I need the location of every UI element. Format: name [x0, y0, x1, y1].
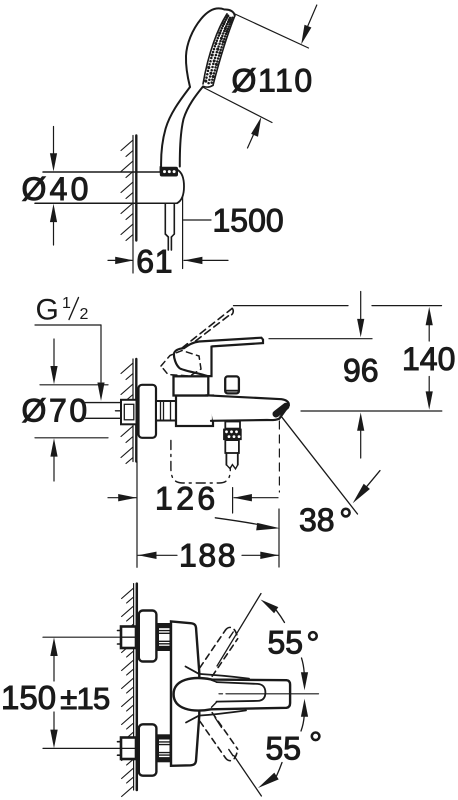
lower 55° arc from centerline	[301, 699, 308, 717]
dimension Ø110 lower arrow	[248, 129, 257, 148]
handle left edge	[161, 87, 190, 167]
handle end nut (black band with knurl dots)	[160, 167, 178, 177]
lower 55° tilted dim line	[234, 756, 262, 797]
svg-text:Ø70: Ø70	[22, 393, 90, 429]
svg-text:1500: 1500	[213, 202, 284, 238]
dimension 61 right arrow	[184, 259, 228, 261]
cartridge housing	[174, 376, 209, 395]
hose break zigzag	[226, 465, 237, 469]
wall hatching (bottom)	[122, 588, 134, 797]
holder escutcheon body	[160, 167, 162, 172]
aerator (mousseur)	[276, 406, 286, 414]
label G 1/2	[36, 294, 89, 327]
ext line dashed lever top level	[234, 305, 349, 307]
shower hose upper	[165, 203, 174, 250]
svg-text:55: 55	[266, 731, 302, 767]
shower head face outer line	[213, 16, 235, 86]
wall hatching (middle)	[121, 363, 133, 464]
spray face stipple dots	[204, 14, 233, 84]
ext line spout tip level	[301, 410, 442, 412]
lever centerline	[219, 693, 223, 695]
upper 55° tilted dim line	[217, 594, 261, 667]
G 1/2 leader line	[100, 325, 102, 382]
mixer body	[176, 396, 213, 427]
dimension ext line Ø40 top / holder top edge	[43, 171, 161, 173]
svg-text:188: 188	[179, 537, 237, 573]
connection nut (middle)	[156, 401, 176, 421]
spout tip plumb line (solid part) / 188 right ext	[278, 509, 280, 567]
top S-union	[118, 627, 137, 649]
dimension 126 left ext line (wall plumb)	[136, 462, 138, 568]
dimension 61 left arrow	[108, 259, 132, 261]
wall line thin	[132, 136, 134, 241]
dimension 150 bottom ext line	[43, 747, 121, 749]
mixer body (front slab)	[171, 621, 199, 765]
holder end bulge	[177, 170, 184, 203]
dimension 96 bottom arrow	[360, 431, 362, 458]
dimension Ø40 top arrow	[53, 127, 55, 155]
svg-text:96: 96	[343, 353, 379, 389]
wall hatching (top)	[121, 140, 133, 241]
shower head face inner line	[203, 14, 227, 84]
bottom S-union	[118, 738, 137, 760]
38 degree arrow on plumb line	[215, 518, 262, 525]
wall line thick (middle)	[135, 359, 137, 462]
escutcheon (middle)	[139, 385, 157, 438]
dimension Ø70 bottom arrow	[53, 456, 55, 481]
dimension 140 top arrow	[426, 307, 433, 325]
G 1/2 arrow	[97, 383, 104, 402]
38 degree spray line	[282, 417, 358, 514]
diverter knob base band	[227, 390, 238, 392]
G 1/2 underline	[35, 324, 101, 326]
diverter knob	[225, 376, 239, 393]
dome skirt top	[186, 667, 250, 679]
dimension 150 top arrow	[50, 637, 57, 656]
svg-text:150: 150	[1, 679, 56, 716]
dimension 140 bottom arrow	[426, 391, 433, 409]
lower dashed lever (55° down)	[200, 713, 238, 761]
upper 55° arrowhead and leader	[261, 600, 279, 614]
dimension Ø110 lower extension line	[204, 88, 273, 123]
svg-text:Ø40: Ø40	[22, 171, 92, 207]
wall line thin (middle)	[132, 359, 134, 462]
dimension 61 right ext line	[182, 196, 184, 269]
wall line thick	[135, 136, 137, 241]
dimension 126 right ext line	[232, 488, 234, 513]
svg-text:G: G	[36, 294, 59, 327]
lower 55° arrowhead and leader	[258, 773, 279, 788]
label 1500 leader	[184, 219, 212, 221]
svg-text:Ø110: Ø110	[232, 63, 314, 99]
dimension Ø110 upper arrow	[304, 5, 317, 36]
dimension 150 top ext line	[43, 636, 121, 638]
svg-text:2: 2	[80, 306, 89, 323]
hose loop (dash-dot)	[171, 441, 230, 484]
dimension 150 bottom arrow	[50, 730, 57, 749]
svg-text:38: 38	[299, 502, 335, 538]
dome skirt bottom	[186, 710, 246, 722]
lever inner tongue	[217, 682, 266, 702]
dimension 126 left arrow	[108, 497, 136, 499]
lever ball and arm (front)	[174, 678, 291, 710]
G1/2 wall union nut	[121, 400, 137, 425]
spout tip face	[279, 406, 289, 419]
shower head outline (back)	[186, 8, 225, 87]
handle right edge	[180, 87, 203, 167]
wall line thick (bottom)	[136, 584, 139, 790]
upper dashed lever center dash	[229, 632, 233, 638]
svg-text:140: 140	[402, 341, 455, 377]
dimension 188 line left	[138, 554, 177, 556]
shower outlet collar	[225, 422, 240, 429]
dimension 61 left ext line	[132, 241, 134, 274]
lever neck diagonals	[212, 680, 218, 682]
lower dashed lever center dash	[229, 750, 233, 756]
spout	[208, 395, 289, 421]
shower head face bottom cap	[203, 85, 213, 87]
upper dashed lever (55° up)	[200, 627, 238, 676]
dashed raised lever bottom line	[193, 316, 229, 343]
dimension Ø70 top arrow	[53, 339, 55, 367]
ext line solid lever top level	[269, 338, 372, 340]
svg-text:55: 55	[268, 624, 304, 660]
svg-text:±15: ±15	[60, 681, 109, 716]
38 degree arrow on spray line	[353, 484, 370, 504]
dashed raised lever top line	[182, 309, 232, 349]
svg-text:61: 61	[136, 244, 173, 280]
dimension Ø70 bottom ext line	[35, 437, 108, 439]
svg-text:126: 126	[155, 480, 219, 516]
dimension 188 line right	[242, 554, 279, 556]
shower outlet knurled nut	[223, 429, 242, 441]
dashed raised lever knob outline	[161, 351, 201, 377]
solid lever	[174, 338, 263, 376]
top escutcheon (front)	[139, 611, 157, 662]
bottom connection nut (front)	[158, 735, 171, 761]
svg-text:1: 1	[62, 295, 71, 312]
dimension 126 right arrow	[234, 497, 278, 499]
dimension 96 top arrow	[360, 292, 362, 320]
supply pipe in wall	[86, 403, 123, 419]
spout tip plumb line (dashed part)	[278, 421, 280, 492]
dimension Ø70 top ext line	[40, 384, 108, 386]
shower outlet nipple	[225, 440, 239, 465]
G 1/2 fraction slash	[69, 298, 79, 320]
dimension Ø40 bottom arrow	[53, 222, 55, 246]
upper 55° arc to centerline	[302, 658, 305, 673]
wall line thin (bottom)	[133, 584, 135, 790]
top connection nut (front)	[158, 624, 171, 650]
shower head tip cap	[225, 9, 235, 15]
dimension Ø110 upper extension line	[235, 14, 309, 48]
dashed raised lever end cap	[229, 308, 234, 316]
bottom escutcheon (front)	[139, 724, 157, 775]
dimension ext line Ø40 bottom / holder bottom edge	[35, 202, 177, 204]
